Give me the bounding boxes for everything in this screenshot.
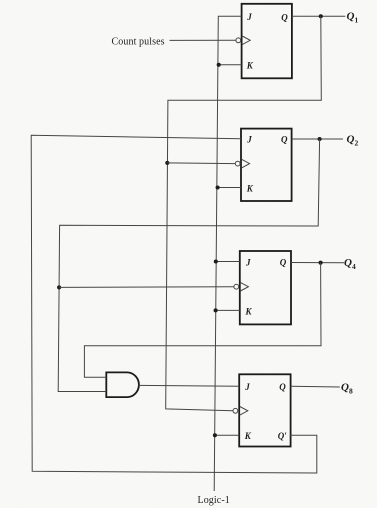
wire: U3 clock stub <box>59 286 234 289</box>
wire: count pulses to U1 clock <box>170 39 236 41</box>
flip-flop U2 box <box>241 129 292 201</box>
wire: Q2 output <box>292 138 343 140</box>
wire: Q1 feedback down-left-down to U4 clock <box>166 16 322 411</box>
wire: Q2 feedback down-left-down to AND input B <box>58 139 319 392</box>
svg-text:J: J <box>245 257 251 267</box>
flip-flop U1 box <box>242 4 292 79</box>
svg-text:J: J <box>246 135 252 145</box>
U1 clock triangle <box>242 36 250 45</box>
wire: K4 stub <box>215 434 239 436</box>
U3 clock triangle <box>240 282 248 291</box>
wire: AND output to J4 <box>138 384 239 387</box>
wire: U2 clock stub <box>167 162 235 165</box>
wire: K3 stub <box>216 309 240 311</box>
U4 clock triangle <box>240 407 248 416</box>
wire: Q8' feedback to J2 <box>31 135 317 473</box>
svg-text:Q: Q <box>279 382 286 392</box>
node: Q2 junction <box>318 137 322 141</box>
wire: J3 stub <box>216 261 240 263</box>
U3 clock bubble <box>234 284 239 289</box>
U4 clock bubble <box>233 408 238 413</box>
node: K3 junction <box>214 308 218 312</box>
wire: Q4 feedback to AND input A <box>84 263 321 378</box>
U2 clock bubble <box>235 161 240 166</box>
svg-text:Q: Q <box>280 258 287 268</box>
wire: K2 stub <box>218 187 241 189</box>
U2 clock triangle <box>242 159 250 168</box>
flip-flop U4 box <box>239 374 290 446</box>
svg-text:Q: Q <box>281 12 288 22</box>
node: J3 junction <box>214 259 218 263</box>
svg-text:Logic-1: Logic-1 <box>198 495 230 506</box>
wire: K1 stub <box>219 64 242 66</box>
svg-text:Q: Q <box>281 135 288 145</box>
node: K1 junction <box>217 63 221 67</box>
AND gate G1 <box>106 372 139 397</box>
node: Q1 junction <box>319 14 323 18</box>
node: U2 clock tap <box>165 161 169 165</box>
node: Q4 junction <box>319 261 323 265</box>
svg-text:Q′: Q′ <box>278 431 287 441</box>
svg-text:K: K <box>246 61 254 71</box>
svg-text:K: K <box>245 306 253 316</box>
wire: Q4 output <box>291 262 344 264</box>
svg-text:K: K <box>244 431 252 441</box>
node: U3 clock tap <box>57 285 61 289</box>
svg-text:Count pulses: Count pulses <box>112 36 165 47</box>
svg-text:K: K <box>246 183 254 193</box>
node: K2 junction <box>216 185 220 189</box>
flip-flop U3 box <box>240 251 291 324</box>
U1 clock bubble <box>236 38 241 43</box>
wire: Logic-1 rail up to J1 <box>214 16 241 491</box>
wire: Q8 output <box>291 385 340 388</box>
svg-text:J: J <box>246 12 252 22</box>
node: K4 junction <box>213 433 217 437</box>
svg-text:J: J <box>244 382 250 392</box>
wire: Q1 output <box>292 15 345 17</box>
